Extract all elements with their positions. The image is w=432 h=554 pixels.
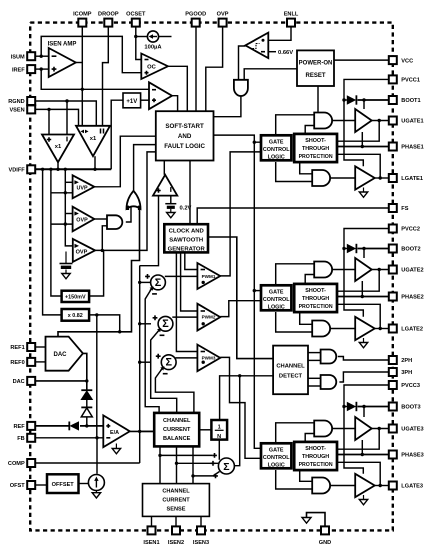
- wire DROOP down to droop amp: [103, 27, 109, 126]
- svg-text:ISEN1: ISEN1: [143, 540, 159, 546]
- svg-text:COMP: COMP: [8, 461, 25, 467]
- wire 2PH AND output: [338, 357, 389, 361]
- wire ICOMP down to droop amp: [81, 27, 83, 126]
- pin LGATE3: [389, 482, 423, 490]
- svg-text:OC: OC: [147, 65, 157, 71]
- summer sigma 4: [218, 458, 234, 474]
- node VDIFF tap A: [49, 168, 52, 171]
- svg-text:ISEN3: ISEN3: [193, 540, 209, 546]
- wire E/A to channel current balance: [140, 430, 155, 432]
- node gate logic 2 enable: [253, 289, 256, 292]
- E/A minus: [106, 437, 110, 439]
- buffer x1 droop: [76, 126, 110, 156]
- svg-text:GND: GND: [319, 540, 331, 546]
- wire 100uA source stub: [159, 36, 172, 38]
- box POWER-ON RESET: [297, 50, 334, 86]
- svg-text:0.2V: 0.2V: [180, 206, 192, 212]
- wire ISEN2 to CCS: [175, 516, 177, 526]
- svg-text:SOFT-START: SOFT-START: [165, 123, 204, 130]
- label PWM1: [202, 274, 216, 279]
- svg-text:PHASE3: PHASE3: [401, 453, 423, 459]
- svg-text:PWM2: PWM2: [202, 315, 216, 320]
- pin LGATE1: [389, 174, 423, 182]
- ground E/A: [112, 444, 120, 454]
- ground offset source: [92, 491, 100, 498]
- pin LGATE2: [389, 325, 423, 333]
- wire CCB to 1/N: [199, 429, 211, 431]
- wire UVP input 1 stub: [65, 181, 72, 183]
- svg-text:CONTROL: CONTROL: [263, 455, 290, 461]
- droop sym2: [101, 129, 104, 134]
- svg-text:PVCC3: PVCC3: [401, 383, 420, 389]
- svg-text:PROTECTION: PROTECTION: [299, 462, 333, 468]
- pin REF0: [10, 358, 35, 366]
- wire OVP1 input 1 stub: [65, 213, 72, 215]
- wire ISEN3 to CCS: [200, 516, 202, 526]
- svg-text:PWM1: PWM1: [202, 274, 216, 279]
- label 0.2V: [180, 206, 192, 212]
- node summer 3 tap: [138, 361, 141, 364]
- summer 2 arrow: [157, 328, 161, 332]
- wire FB trunk to offset source: [96, 438, 98, 474]
- node CCB-CCS tap: [158, 454, 161, 457]
- svg-text:SHOOT-: SHOOT-: [305, 288, 326, 294]
- droop sym1: [81, 130, 89, 134]
- wire 1/N up to channel detect input 2: [220, 376, 274, 420]
- PWM3 minus: [201, 351, 205, 353]
- block DAC: [46, 337, 83, 371]
- wire soft-start trunk to gate logic 1: [214, 135, 262, 142]
- wire VSEN to buffer inputs: [34, 109, 78, 125]
- wire channel detect AND 3PH: [308, 377, 321, 379]
- wire OVP2 branch to AND gate: [102, 226, 107, 251]
- wire ISEN1 to CCS: [151, 516, 153, 526]
- summer 3 minus: [163, 373, 168, 375]
- wire diode stack to REF line: [86, 417, 88, 426]
- node x0.82 joins DAC line: [118, 330, 121, 333]
- wire OVP1 input 2: [51, 223, 76, 225]
- pin PHASE2: [389, 293, 424, 301]
- pin ISEN1: [143, 526, 159, 546]
- wire REF1 to DAC: [34, 346, 45, 348]
- current source 100uA: [147, 31, 158, 42]
- node droop output on VDIFF: [93, 168, 96, 171]
- svg-text:THROUGH: THROUGH: [302, 146, 329, 152]
- summer 3 plus: [156, 354, 161, 359]
- ss comp bar: [170, 187, 172, 192]
- wire summer 4 output to average line: [234, 376, 240, 466]
- pin BOOT2: [389, 245, 421, 253]
- svg-text:x1: x1: [55, 144, 62, 150]
- svg-text:PROTECTION: PROTECTION: [299, 304, 333, 310]
- phase 1 driver (BOOT1/UGATE1/PHASE1/LGATE1): [261, 79, 389, 197]
- wire POR down to gate logic: [317, 86, 319, 112]
- pin VCC: [389, 56, 413, 64]
- wire ENLL AND output to fault logic: [214, 96, 241, 116]
- wire ISUM feedback loop to ICOMP node: [41, 36, 141, 72]
- wire REF0 to DAC: [34, 361, 45, 363]
- diode REF: [69, 421, 79, 430]
- comparator PWM2: [197, 304, 220, 331]
- wire sawtooth to PWM3: [176, 252, 197, 351]
- box CHANNEL CURRENT SENSE: [143, 484, 210, 517]
- ground GND pin: [302, 518, 311, 524]
- svg-text:BOOT2: BOOT2: [401, 247, 420, 253]
- svg-text:Σ: Σ: [155, 277, 162, 289]
- IC boundary (dashed): [30, 23, 393, 531]
- svg-text:RGND: RGND: [8, 99, 24, 105]
- svg-text:BOOT3: BOOT3: [401, 405, 420, 411]
- box CHANNEL DETECT: [273, 346, 308, 395]
- svg-text:SHOOT-: SHOOT-: [305, 138, 326, 144]
- svg-text:CHANNEL: CHANNEL: [163, 418, 191, 424]
- svg-text:THROUGH: THROUGH: [302, 454, 329, 460]
- label PWM3: [202, 355, 216, 360]
- svg-text:FAULT LOGIC: FAULT LOGIC: [164, 143, 205, 150]
- box CLOCK AND SAWTOOTH GENERATOR: [164, 224, 208, 252]
- comparator +1V: [149, 82, 172, 109]
- box CHANNEL CURRENT BALANCE: [154, 413, 199, 447]
- svg-text:2PH: 2PH: [401, 358, 412, 364]
- svg-text:PGOOD: PGOOD: [185, 12, 206, 18]
- OVP2 arrow: [75, 244, 80, 248]
- svg-text:ISEN AMP: ISEN AMP: [48, 42, 77, 48]
- comparator OVP1: [73, 207, 95, 232]
- PWM1 plus dot: [202, 281, 205, 284]
- pin 3PH: [389, 368, 412, 376]
- PWM1 minus: [201, 269, 205, 271]
- wire summer to PWM3: [176, 357, 198, 359]
- wire 0.2V comp soft-start input: [140, 196, 159, 266]
- pin UGATE1: [389, 117, 424, 125]
- wire OFFSET box to current source: [79, 483, 89, 485]
- svg-text:OFST: OFST: [10, 483, 25, 489]
- box SOFT-START AND FAULT LOGIC: [156, 111, 214, 160]
- wire +1V comparator output to fault logic: [172, 96, 178, 112]
- svg-text:FB: FB: [17, 436, 24, 442]
- pin DROOP: [98, 12, 119, 27]
- node ISUM branch: [40, 55, 43, 58]
- PWM3 plus dot: [202, 361, 205, 364]
- box 1/N: [211, 420, 227, 440]
- svg-text:E/A: E/A: [110, 430, 119, 436]
- phase 3 driver (BOOT3/UGATE3/PHASE3/LGATE3): [261, 385, 389, 505]
- reference zener OVP2: [60, 252, 73, 279]
- svg-text:VDIFF: VDIFF: [9, 168, 26, 174]
- pin REF: [14, 422, 36, 430]
- pin OVP: [217, 12, 229, 27]
- gate AND enable: [234, 80, 248, 96]
- label OVP2: [76, 250, 88, 256]
- svg-text:OCSET: OCSET: [126, 12, 146, 18]
- node average current junction: [238, 374, 241, 377]
- wire enable to gate logic 2: [254, 290, 261, 292]
- svg-text:FS: FS: [401, 206, 408, 212]
- wire channel detect AND 2PH: [308, 352, 321, 354]
- wire to summer 1: [140, 281, 151, 283]
- wire COMP trunk to summers: [139, 266, 141, 463]
- svg-text:VCC: VCC: [401, 58, 413, 64]
- pin VDIFF: [9, 165, 36, 173]
- label x1 a: [55, 144, 62, 150]
- node diode stack on REF: [85, 424, 88, 427]
- svg-text:Σ: Σ: [223, 461, 229, 473]
- svg-text:CLOCK AND: CLOCK AND: [169, 228, 204, 234]
- svg-text:PWM3: PWM3: [202, 355, 216, 360]
- diode DAC clamp lower: [81, 407, 92, 417]
- pin REF1: [10, 343, 35, 351]
- pin FB: [17, 434, 35, 442]
- svg-text:THROUGH: THROUGH: [302, 296, 329, 302]
- wire channel detect AND 3PH b: [308, 385, 321, 387]
- wire clock to channel detect: [208, 237, 273, 359]
- pin PVCC3: [389, 381, 420, 389]
- +1V comp minus: [152, 89, 156, 91]
- svg-text:1: 1: [218, 424, 221, 430]
- wire 3PH AND output: [339, 372, 388, 382]
- OC minus: [145, 59, 149, 61]
- current source offset: [88, 475, 104, 491]
- wire VDIFF tap to x0.82 box: [43, 169, 62, 315]
- svg-text:SAWTOOTH: SAWTOOTH: [169, 237, 203, 243]
- op-amp E/A: [103, 415, 130, 447]
- ISEN AMP plus: [52, 67, 57, 72]
- wire x1 amp output to VDIFF: [57, 162, 59, 169]
- svg-text:SHOOT-: SHOOT-: [305, 446, 326, 452]
- wire POR to AND gate: [244, 69, 297, 80]
- svg-text:100µA: 100µA: [144, 45, 162, 51]
- svg-text:LGATE1: LGATE1: [401, 176, 423, 182]
- svg-text:CURRENT: CURRENT: [163, 427, 191, 433]
- svg-text:Σ: Σ: [162, 318, 169, 330]
- comparator OC: [141, 54, 168, 80]
- node CCB-CCS tap: [175, 462, 178, 465]
- wire PGOOD down to fault logic: [195, 27, 197, 112]
- wire droop amp output to VDIFF: [94, 156, 96, 169]
- svg-text:GATE: GATE: [269, 447, 284, 453]
- svg-text:ISUM: ISUM: [11, 54, 25, 60]
- pin UGATE3: [389, 425, 424, 433]
- node OCSET tap to 100uA source: [134, 35, 137, 38]
- wire summer4 input 3: [193, 472, 220, 476]
- wire COMP line: [34, 462, 140, 464]
- box +150mV: [62, 291, 90, 302]
- svg-text:UGATE2: UGATE2: [401, 268, 423, 274]
- svg-text:GATE: GATE: [269, 289, 284, 295]
- svg-text:N: N: [217, 434, 221, 440]
- ENLL comp plus dot: [262, 39, 265, 42]
- PWM2 minus: [201, 310, 205, 312]
- box x 0.82: [62, 309, 90, 321]
- svg-text:x1: x1: [90, 136, 97, 142]
- pin ICOMP: [73, 12, 92, 27]
- wire CCB to CCS: [159, 446, 161, 483]
- wire fault logic to 0.2V comparator: [163, 161, 165, 175]
- wire VDIFF rail: [34, 168, 111, 170]
- label ISEN AMP: [48, 42, 77, 48]
- wire OVP1 output to AND gate: [94, 218, 107, 220]
- wire DAC output to OR gate: [58, 209, 140, 337]
- svg-text:AND: AND: [178, 133, 192, 140]
- OC plus: [145, 71, 149, 75]
- svg-text:DETECT: DETECT: [279, 373, 303, 379]
- svg-text:LGATE3: LGATE3: [401, 484, 423, 490]
- label OVP1: [76, 218, 88, 224]
- svg-text:CURRENT: CURRENT: [162, 498, 190, 504]
- gate AND 3PH: [321, 375, 337, 389]
- summer 2 plus: [153, 315, 158, 320]
- ISEN AMP minus: [52, 55, 57, 57]
- node summer 1 tap: [138, 281, 141, 284]
- gate AND ovp: [107, 215, 122, 229]
- wire OFST to OFFSET box: [34, 484, 47, 486]
- wire REF diode to E/A plus: [80, 425, 103, 427]
- svg-text:0.66V: 0.66V: [278, 50, 293, 56]
- node OVP1 input 2: [64, 222, 67, 225]
- svg-text:CHANNEL: CHANNEL: [276, 363, 305, 369]
- wire soft-start trunk down: [254, 142, 261, 448]
- svg-text:OVP: OVP: [76, 250, 88, 256]
- summer 4 plus c: [213, 474, 218, 479]
- wire VDIFF tap down UVP/OVP chain: [65, 169, 73, 246]
- wire correction trunk 2 (CCB to summer2): [151, 331, 177, 413]
- svg-text:OFFSET: OFFSET: [52, 482, 75, 488]
- wire ENLL comparator output to AND: [239, 46, 246, 80]
- svg-text:CONTROL: CONTROL: [263, 147, 290, 153]
- svg-text:DROOP: DROOP: [98, 12, 119, 18]
- svg-text:UGATE1: UGATE1: [401, 119, 423, 125]
- svg-text:x 0.82: x 0.82: [68, 313, 83, 319]
- node VSEN branch: [47, 108, 50, 111]
- node CCB-CCS tap: [191, 474, 194, 477]
- wire RGND to buffer inputs: [34, 101, 96, 126]
- comparator soft-start 0.2V: [153, 175, 177, 196]
- svg-text:ENLL: ENLL: [284, 12, 299, 18]
- pin IREF: [12, 65, 35, 73]
- svg-text:3PH: 3PH: [401, 370, 412, 376]
- node E/A output: [138, 430, 141, 433]
- svg-text:CONTROL: CONTROL: [263, 297, 290, 303]
- svg-text:SENSE: SENSE: [167, 507, 186, 513]
- wire summer to PWM2: [172, 316, 197, 318]
- wire PWM3 output down to gate logic 3: [220, 357, 261, 458]
- node DAC junction: [85, 379, 88, 382]
- node +1V comp input: [149, 99, 152, 102]
- svg-text:PHASE2: PHASE2: [401, 295, 423, 301]
- label 0.66V: [278, 50, 293, 56]
- summer 3 arrow: [160, 366, 164, 370]
- pin VSEN: [9, 105, 35, 113]
- x1 plus: [47, 137, 51, 141]
- node ICOMP-ISEN-output junction: [81, 88, 84, 91]
- pin ISEN3: [193, 526, 209, 546]
- wire POR to VCC: [334, 59, 389, 61]
- label x1 b: [90, 136, 97, 142]
- ground 0.2V ref: [167, 209, 175, 218]
- wire AND output to OR gate: [126, 207, 131, 222]
- comparator ENLL: [245, 33, 268, 59]
- summer 2 minus: [160, 334, 165, 336]
- ENLL comp minus: [261, 51, 265, 53]
- wire +1V box to comparator: [141, 99, 149, 101]
- wire CCB to CCS: [176, 446, 178, 483]
- svg-text:GATE: GATE: [269, 139, 284, 145]
- summer 1 plus: [145, 274, 150, 279]
- buffer x1 differential: [42, 135, 74, 163]
- wire VSEN branch to x1 amp: [48, 109, 50, 134]
- svg-text:BALANCE: BALANCE: [163, 436, 191, 442]
- pin PGOOD: [185, 12, 206, 27]
- wire correction trunk 3 (CCB to summer3): [155, 369, 194, 413]
- wire ISUM to ISEN amp inverting input: [34, 55, 49, 57]
- pin RGND: [8, 97, 35, 105]
- wire PWM2 output to gate logic 2: [220, 301, 261, 317]
- label UVP: [76, 185, 87, 191]
- wire RGND branch to x1 amp: [66, 101, 68, 135]
- phase 2 driver (BOOT2/UGATE2/PHASE2/LGATE2): [261, 229, 389, 348]
- svg-text:REF0: REF0: [10, 360, 24, 366]
- pin OCSET: [126, 12, 146, 27]
- node x0.82 output tap: [95, 313, 98, 316]
- ENLL hysteresis: [253, 44, 260, 49]
- comparator PWM1: [197, 263, 220, 289]
- svg-text:RESET: RESET: [305, 73, 325, 79]
- wire OCSET to 100uA current source: [136, 36, 148, 38]
- pin PVCC1: [389, 75, 420, 83]
- wire CCB to CCS: [192, 446, 194, 483]
- wire DAC block output down: [83, 353, 87, 390]
- wire UVP input 2: [51, 192, 76, 194]
- svg-text:DAC: DAC: [13, 379, 25, 385]
- comparator UVP: [73, 175, 95, 198]
- pin PHASE1: [389, 143, 424, 151]
- svg-text:REF1: REF1: [10, 345, 24, 351]
- svg-text:OVP: OVP: [217, 12, 229, 18]
- node summer 2 tap: [138, 322, 141, 325]
- pin PHASE3: [389, 451, 424, 459]
- svg-text:GENERATOR: GENERATOR: [168, 246, 206, 252]
- svg-text:ICOMP: ICOMP: [73, 12, 92, 18]
- wire 1/N to summer 4: [218, 440, 220, 460]
- svg-text:REF: REF: [14, 424, 26, 430]
- svg-text:Σ: Σ: [165, 357, 172, 369]
- svg-text:CHANNEL: CHANNEL: [162, 489, 190, 495]
- pin FS: [389, 204, 409, 212]
- wire to summer 2: [140, 323, 151, 325]
- pin 2PH: [389, 356, 412, 364]
- wire DAC pin line: [34, 380, 87, 382]
- node gate logic 1 enable: [253, 141, 256, 144]
- node VDIFF tap B: [41, 168, 44, 171]
- wire +150mV to OVP trunk: [89, 250, 104, 296]
- comparator OVP2: [73, 239, 95, 262]
- summer 1 minus: [152, 293, 157, 295]
- svg-text:OVP: OVP: [76, 218, 88, 224]
- wire IREF down to reference rail: [41, 69, 149, 89]
- node RGND branch: [65, 99, 68, 102]
- E/A plus: [106, 424, 110, 428]
- box +1V: [123, 93, 141, 108]
- diode DAC clamp upper: [81, 390, 92, 399]
- svg-text:ISEN2: ISEN2: [168, 540, 184, 546]
- wire IREF to ISEN amp non-inverting input: [34, 68, 49, 70]
- wire ISEN amp output to ICOMP line: [76, 62, 83, 64]
- summer sigma 1: [151, 275, 166, 290]
- wire summer4 input 2: [177, 462, 219, 464]
- summer 4 plus a: [212, 453, 217, 458]
- summer 1 arrow: [150, 287, 154, 291]
- UVP arrow: [74, 180, 79, 184]
